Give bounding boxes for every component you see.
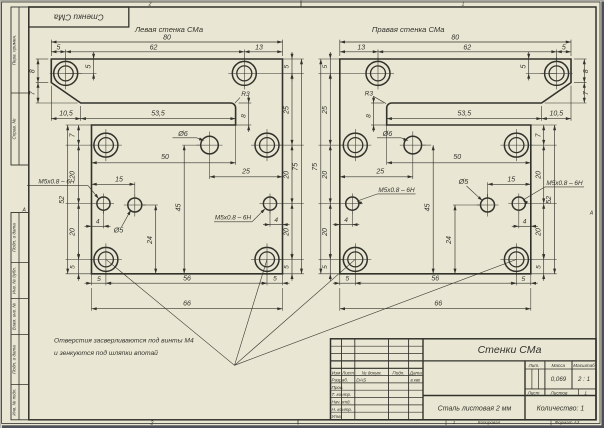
dimension 5 top-left (51, 51, 65, 53)
svg-text:8: 8 (241, 114, 248, 118)
dimension 52 left (67, 125, 69, 274)
title block change-table rows (331, 345, 424, 347)
dimension 5 left chain right plate bottom (329, 259, 331, 273)
left plate countersunk hole mid-right (255, 133, 279, 157)
svg-text:Ø5: Ø5 (458, 177, 470, 186)
svg-text:Формат А3: Формат А3 (555, 420, 580, 425)
dimension 5 bottom right plate b (340, 282, 356, 284)
svg-text:80: 80 (451, 34, 459, 41)
dimension 15 right plate (487, 182, 489, 198)
dimension 8 left chain (36, 58, 49, 60)
left plate countersunk hole mid-left (94, 133, 118, 157)
dimension 7 right chain (545, 102, 587, 104)
svg-text:20: 20 (322, 228, 329, 237)
svg-text:Масштаб: Масштаб (573, 363, 595, 368)
svg-text:20: 20 (70, 228, 77, 237)
leader to right plate bottom-left hole (235, 260, 355, 366)
svg-text:1: 1 (584, 391, 587, 396)
svg-text:5: 5 (70, 265, 77, 269)
svg-text:Т. контр.: Т. контр. (332, 392, 352, 397)
svg-text:Листов: Листов (550, 391, 568, 396)
zone tick bottom (297, 420, 299, 425)
svg-text:5: 5 (284, 64, 291, 68)
dimension 24 right plate (453, 204, 480, 206)
svg-text:M5x0.8 – 6H: M5x0.8 – 6H (215, 215, 252, 222)
left plate countersunk hole top-inner (232, 61, 256, 85)
svg-text:5: 5 (322, 265, 329, 269)
right plate hole M5 inner (346, 197, 359, 210)
leader to left plate bottom-right hole (235, 260, 267, 365)
dimension 25 right chain (291, 73, 293, 145)
svg-text:0,069: 0,069 (551, 376, 567, 383)
left plate hole M5 outer (97, 197, 110, 210)
svg-text:А: А (589, 211, 594, 217)
dimension 20 right chain right plate b (543, 204, 545, 260)
dimension 10,5 right plate (570, 86, 572, 121)
left plate hole D5 (128, 198, 142, 212)
right chain extensions right plate (531, 124, 557, 126)
svg-text:Подп. и дата: Подп. и дата (11, 345, 16, 374)
svg-text:20: 20 (284, 228, 291, 237)
svg-text:50: 50 (161, 154, 169, 161)
svg-text:Лист: Лист (341, 370, 354, 375)
svg-text:Отверстия засверливаются под в: Отверстия засверливаются под винты М4 (54, 337, 194, 345)
svg-text:13: 13 (357, 44, 365, 51)
sheet shadow right (601, 2, 604, 428)
svg-text:№ докум.: № докум. (362, 370, 382, 375)
right plate countersunk hole mid-left (504, 133, 528, 157)
bottom dimension extensions (91, 274, 93, 286)
svg-text:Взам. инв. №: Взам. инв. № (11, 303, 16, 330)
left plate countersunk hole top-outer (54, 61, 78, 85)
slot edge extension right plate (386, 125, 388, 165)
svg-text:Дата: Дата (409, 370, 423, 375)
svg-text:10,5: 10,5 (549, 110, 563, 117)
svg-text:5: 5 (322, 64, 329, 68)
dimension 45 right plate (422, 144, 431, 146)
dimension 7 right inner chain (543, 125, 545, 145)
dimension 56 bottom (106, 282, 267, 284)
dimension 25 left chain right plate (329, 73, 331, 145)
svg-text:52: 52 (546, 196, 553, 204)
dimension 7 left chain (36, 102, 78, 104)
dimension 52 right plate (554, 125, 556, 274)
dimension 5 left chain right plate top (329, 59, 331, 73)
title block main vertical 423 (422, 339, 424, 420)
svg-text:45: 45 (424, 204, 431, 212)
dimension 56 right plate (355, 282, 516, 284)
svg-text:50: 50 (453, 154, 461, 161)
right plate hole D5 (481, 198, 495, 212)
dimension 62 right plate (378, 51, 557, 53)
svg-text:2 : 1: 2 : 1 (577, 376, 590, 383)
dimension 8 notch depth (239, 102, 252, 104)
right chain extension lines (283, 58, 304, 60)
svg-text:M5x0.8 – 6H: M5x0.8 – 6H (546, 180, 583, 187)
dimension 4 right M5 (269, 210, 271, 227)
top-left rotated designation box (29, 7, 129, 27)
dimension 8 notch right plate (371, 102, 384, 104)
svg-text:Лист: Лист (527, 391, 540, 396)
dimension 5 bottom right plate a (516, 282, 530, 284)
svg-text:Н. контр.: Н. контр. (332, 407, 353, 412)
svg-text:Инв. № дубл.: Инв. № дубл. (11, 267, 16, 294)
title block header row line (331, 367, 424, 369)
svg-text:4: 4 (274, 217, 278, 224)
right plate countersunk hole top-inner (366, 61, 390, 85)
svg-text:DAS: DAS (356, 378, 367, 384)
svg-text:5: 5 (273, 276, 277, 283)
title block signature rows (331, 375, 424, 377)
svg-text:20: 20 (70, 171, 77, 180)
dimension 5 vertical top hole right plate (526, 72, 557, 74)
dimension 20 left chain a (78, 145, 80, 204)
left plate countersunk hole bottom-left (94, 247, 118, 271)
left chain extension lines (66, 124, 92, 126)
svg-text:15: 15 (115, 177, 123, 184)
svg-text:Левая стенка СМа: Левая стенка СМа (134, 25, 203, 34)
dimension 7 left inner chain (78, 125, 80, 145)
dimension 13 right plate (340, 51, 378, 53)
svg-text:15: 15 (507, 177, 515, 184)
svg-text:5: 5 (284, 265, 291, 269)
svg-text:75: 75 (293, 163, 300, 171)
svg-text:5: 5 (57, 44, 61, 51)
left plate hole M5 inner (263, 197, 276, 210)
dimension 53,5 (81, 118, 236, 120)
dimension 5 vertical top-left hole (66, 72, 97, 74)
dimension 5 right chain right plate bottom (543, 259, 545, 273)
svg-text:66: 66 (183, 301, 191, 308)
svg-text:5: 5 (521, 276, 525, 283)
dimension 5 right chain top (291, 59, 293, 73)
leader to right plate bottom-right hole (235, 260, 516, 366)
dimension 15 (134, 182, 136, 198)
svg-text:24: 24 (446, 236, 453, 245)
svg-text:А: А (22, 208, 27, 214)
svg-text:Инв. № подл.: Инв. № подл. (11, 388, 16, 415)
sheet edge shading top (0, 0, 604, 1)
svg-text:24: 24 (147, 236, 154, 245)
svg-text:53,5: 53,5 (151, 110, 165, 117)
dimension 20 left chain right plate b (329, 204, 331, 260)
svg-text:Утв.: Утв. (332, 414, 342, 419)
svg-text:62: 62 (150, 44, 158, 51)
sheet edge shading left (0, 0, 1, 428)
svg-text:75: 75 (312, 163, 319, 171)
bottom extensions right plate (530, 274, 532, 286)
title block column lines left part (341, 339, 343, 420)
dimension extension lines 5-62-13 (65, 50, 67, 62)
dimension 4 outer M5 right plate (351, 210, 353, 227)
svg-text:Ø6: Ø6 (382, 129, 393, 138)
title block main vertical 525 (524, 361, 526, 420)
svg-text:4: 4 (96, 219, 100, 226)
svg-text:Стенки СМа: Стенки СМа (478, 344, 542, 356)
svg-text:56: 56 (431, 276, 439, 283)
dimension 10,5 (50, 86, 52, 121)
svg-text:4: 4 (523, 219, 527, 226)
svg-text:13: 13 (255, 44, 263, 51)
dimension 75 right (301, 59, 303, 274)
dimension 53,5 right plate (387, 118, 542, 120)
svg-text:52: 52 (59, 196, 66, 204)
svg-text:8: 8 (583, 69, 590, 73)
dimension 5 bottom-left (92, 282, 106, 284)
left plate outline (51, 59, 282, 274)
dimension 20 left chain b (78, 204, 80, 260)
svg-text:10,5: 10,5 (59, 110, 73, 117)
svg-text:4: 4 (344, 217, 348, 224)
dimension 5 right chain bottom (291, 259, 293, 273)
dimension 45 (182, 144, 201, 146)
svg-text:25: 25 (375, 169, 384, 176)
svg-text:в.кво: в.кво (411, 378, 421, 383)
svg-text:2: 2 (148, 2, 152, 8)
title block horizontal bottom band (423, 395, 596, 397)
dimension 5 left chain bottom (78, 259, 80, 273)
dimension 20 right chain right plate a (543, 145, 545, 204)
svg-text:56: 56 (183, 276, 191, 283)
left margin table: Perv. primen. / Sprav. No (11, 7, 29, 165)
svg-text:Ø6: Ø6 (177, 129, 188, 138)
svg-text:66: 66 (434, 301, 442, 308)
svg-text:5: 5 (345, 276, 349, 283)
svg-text:Перв. примен.: Перв. примен. (11, 35, 16, 66)
svg-text:20: 20 (322, 171, 329, 180)
dimension 4 inner M5 right plate (518, 210, 520, 228)
dimension 80 top right plate (570, 40, 572, 56)
left chain extensions right plate (319, 58, 340, 60)
svg-text:8: 8 (30, 69, 37, 73)
left plate hole D6 (201, 136, 219, 154)
svg-text:25: 25 (322, 106, 329, 115)
dimension 13 top (244, 51, 282, 53)
extension lines 13-62-5 right plate (556, 50, 558, 62)
svg-text:8: 8 (366, 114, 373, 118)
svg-text:M5x0.8 – 6H: M5x0.8 – 6H (378, 187, 415, 194)
svg-text:Лит.: Лит. (528, 363, 540, 368)
slot edge extension for 50 (235, 125, 237, 165)
svg-text:Ø5: Ø5 (113, 226, 125, 235)
right plate countersunk hole bottom-right (343, 247, 367, 271)
dimension 4 left M5 (103, 210, 105, 228)
right plate countersunk hole top-outer (545, 61, 569, 85)
dimension 66 (92, 308, 283, 310)
dimension 75 left of right plate (320, 59, 322, 274)
dimension 62 top (66, 51, 245, 53)
dimension 20 right chain b (291, 204, 293, 260)
svg-text:Правая стенка СМа: Правая стенка СМа (372, 25, 445, 34)
svg-text:25: 25 (241, 169, 250, 176)
dimension 50 right plate (387, 162, 531, 164)
dimension 80 top (50, 40, 52, 56)
svg-text:Подп.: Подп. (392, 370, 404, 375)
svg-text:Сталь листовая 2 мм: Сталь листовая 2 мм (438, 405, 512, 412)
dimension 25 right plate (412, 159, 414, 180)
title block outline (331, 339, 597, 420)
dimension 8 right chain (574, 58, 587, 60)
svg-text:Разраб.: Разраб. (332, 378, 349, 383)
svg-text:25: 25 (284, 106, 291, 115)
svg-text:45: 45 (175, 204, 182, 212)
svg-text:80: 80 (163, 34, 171, 41)
right plate hole M5 outer (512, 197, 525, 210)
svg-text:62: 62 (463, 44, 471, 51)
right plate hole D6 (404, 136, 422, 154)
sheet shadow bottom (2, 425, 604, 428)
dimension 66 right plate (530, 288, 532, 311)
svg-text:Пров.: Пров. (332, 385, 344, 390)
svg-text:Подп. и дата: Подп. и дата (11, 223, 16, 252)
dimension 25 mid (209, 159, 211, 180)
svg-text:20: 20 (284, 171, 291, 180)
svg-text:Копировал: Копировал (478, 420, 501, 425)
svg-text:1: 1 (462, 2, 465, 8)
svg-text:Нач.отд.: Нач.отд. (332, 400, 351, 405)
svg-text:Справ. №: Справ. № (11, 119, 16, 140)
dimension 66 extensions (91, 288, 93, 311)
dimension 20 left chain right plate a (329, 145, 331, 204)
svg-text:и зенкуются под шляпки впотай: и зенкуются под шляпки впотай (54, 349, 158, 357)
dimension 20 right chain a (291, 145, 293, 204)
svg-text:5: 5 (535, 265, 542, 269)
left margin table: signatures block (11, 213, 29, 420)
svg-text:R3: R3 (365, 90, 374, 97)
svg-text:5: 5 (521, 65, 528, 69)
dimension 5 bottom-right (267, 282, 283, 284)
svg-text:53,5: 53,5 (457, 110, 471, 117)
zone tick top (300, 1, 302, 8)
svg-text:2: 2 (150, 420, 154, 426)
svg-text:20: 20 (535, 171, 542, 180)
svg-text:5: 5 (86, 65, 93, 69)
svg-text:Масса: Масса (552, 363, 566, 368)
svg-text:20: 20 (535, 228, 542, 237)
dimension 24 (142, 204, 158, 206)
left plate countersunk hole bottom-right (255, 247, 279, 271)
dimension 50 (92, 162, 236, 164)
right plate countersunk hole bottom-left (504, 247, 528, 271)
svg-text:5: 5 (562, 44, 566, 51)
right plate countersunk hole mid-right (343, 133, 367, 157)
title block lit-massa-masshtab lines (544, 361, 546, 396)
svg-text:Количество: 1: Количество: 1 (537, 405, 585, 412)
leader to left plate bottom-left hole (106, 260, 234, 366)
svg-text:Изм: Изм (332, 370, 341, 375)
right plate outline (340, 59, 571, 274)
svg-text:Стенки СМа: Стенки СМа (53, 12, 103, 21)
dimension 5 right plate top (557, 51, 571, 53)
svg-text:5: 5 (97, 276, 101, 283)
